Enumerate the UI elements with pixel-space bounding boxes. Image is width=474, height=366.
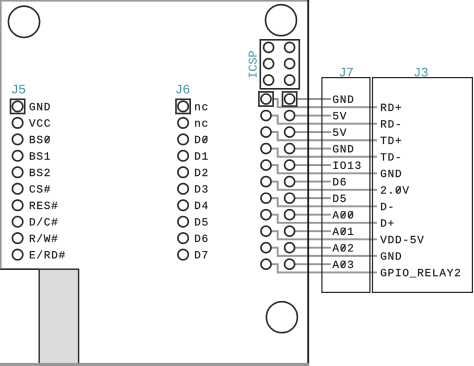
wire: header right pin row 1 to J7 GND	[295, 98, 331, 100]
J6 pin 5 (D2)	[178, 167, 188, 177]
wire: header left pin row 6 to J3 2.0V	[271, 182, 377, 190]
J6 pin 3 (D0)	[178, 134, 188, 144]
header pin row 6 right	[285, 177, 295, 187]
J6 pin 6 (D3)	[178, 184, 188, 194]
wire: header right pin row 8 to J7 A00	[295, 214, 331, 216]
J5 pin 6 label CS#	[30, 185, 36, 192]
J6 pin 8 (D5)	[178, 216, 188, 226]
header pin row 4 right	[285, 144, 295, 154]
J3 pin label D-	[381, 203, 386, 210]
board outline: left edge	[0, 0, 2, 268]
wire: header left pin row 3 to J3 TD+	[271, 132, 377, 140]
J5 pin 10 label E/RD#	[30, 251, 35, 258]
J7 pin label D5	[333, 195, 338, 202]
J5 pin 1 label GND	[30, 103, 35, 110]
ICSP pin 1	[264, 42, 274, 52]
wire: header right pin row 2 to J7 5V	[295, 115, 331, 117]
J6 pin 3 label D0	[195, 136, 200, 143]
header pin row 9 right	[285, 226, 295, 236]
wire: header left pin row 4 to J3 TD-	[271, 149, 377, 157]
J5 pin 8 label D/C#	[30, 218, 35, 225]
wire: header left pin row 5 to J3 GND	[271, 165, 377, 173]
header pin row 11 left	[261, 259, 271, 269]
header pin row 3 right	[285, 127, 295, 137]
J3 pin label D+	[381, 219, 386, 226]
J5 pin 4 (BS1)	[12, 151, 22, 161]
ICSP pin 6	[285, 75, 295, 85]
J5 pin 10 (E/RD#)	[12, 249, 22, 259]
header pin row 8 left	[261, 210, 271, 220]
header pin row 11 right	[285, 259, 295, 269]
J7 pin label A03	[332, 261, 339, 268]
dual-row header pins	[259, 92, 297, 269]
header pin row 1 left	[261, 94, 271, 104]
header J6	[176, 85, 208, 260]
mounting hole (top-right)	[266, 5, 297, 36]
header pin row 10 left	[261, 243, 271, 253]
connector J3 box	[373, 78, 473, 293]
J5 pin 9 (R/W#)	[12, 233, 22, 243]
wire: header right pin row 5 to J7 IO13	[295, 164, 331, 166]
header J5	[11, 85, 65, 260]
J6 pin 1 (nc)	[178, 101, 188, 111]
J5 pin 1 (GND)	[12, 101, 22, 111]
J5 pin 2 label VCC	[29, 119, 35, 126]
wire: header left pin row 2 to J3 RD-	[271, 116, 377, 124]
header pin row 10 right	[285, 243, 295, 253]
mounting hole (bottom)	[266, 302, 297, 333]
J5 pin 5 label BS2	[30, 169, 35, 176]
J5 pin 8 (D/C#)	[12, 216, 22, 226]
wire: header right pin row 10 to J7 A02	[295, 247, 331, 249]
connector J7 box	[322, 78, 370, 293]
ICSP pin 3	[264, 59, 274, 69]
ICSP pin 2	[285, 42, 295, 52]
connector tab (bottom-left edge connector)	[39, 269, 78, 364]
connector ICSP	[249, 40, 300, 89]
J6 pin 4 (D1)	[178, 151, 188, 161]
J6 pin 1 label nc	[195, 104, 200, 110]
J7 pin label GND	[333, 145, 338, 152]
header pin row 3 left	[261, 127, 271, 137]
J6 pin 2 (nc)	[178, 118, 188, 128]
label J5	[12, 85, 17, 94]
J6 pin 2 label nc	[195, 121, 200, 127]
wire: header left pin row 9 to J3 VDD-5V	[271, 231, 377, 239]
J7 pin label 5V	[333, 129, 338, 136]
header pin row 5 right	[285, 160, 295, 170]
J7 pin label A02	[332, 244, 339, 251]
header pin row 8 right	[285, 210, 295, 220]
J3 pin label RD+	[381, 104, 386, 111]
label J3	[414, 68, 419, 77]
wire: header left pin row 10 to J3 GND	[271, 248, 377, 256]
wire: header right pin row 9 to J7 A01	[295, 230, 331, 232]
J7 pin label 5V	[333, 112, 338, 119]
J3 pin label 2.0V	[381, 186, 386, 193]
J7 pin label D6	[333, 178, 338, 185]
J5 pin 3 (BS0)	[12, 134, 22, 144]
J6 pin 7 label D4	[195, 202, 200, 209]
label ICSP (vertical)	[249, 51, 257, 77]
header pin row 1 right	[285, 94, 295, 104]
board outline: bottom-left notch edge	[0, 268, 39, 270]
wire: header right pin row 7 to J7 D5	[295, 197, 331, 199]
J6 pin 1 square pad	[176, 99, 190, 113]
label J6	[176, 85, 181, 94]
wire: header left pin row 8 to J3 D+	[271, 215, 377, 223]
J7 pin label A01	[332, 228, 339, 235]
J5 pin 7 label RES#	[30, 202, 35, 209]
J5 pin 3 label BS0	[30, 136, 35, 143]
ICSP box	[260, 40, 299, 89]
header square pad row 1 right	[283, 92, 297, 106]
board outline: bottom edge	[0, 363, 309, 366]
board outline: right edge	[307, 0, 309, 366]
J6 pin 5 label D2	[195, 169, 200, 176]
wire: header right pin row 11 to J7 A03	[295, 263, 331, 265]
J5 pin 5 (BS2)	[12, 167, 22, 177]
J3 pin label VDD-5V	[380, 236, 386, 243]
header pin row 7 right	[285, 193, 295, 203]
J3 pin label GND	[381, 252, 386, 259]
J6 pin 6 label D3	[195, 185, 200, 192]
J3 pin label TD-	[381, 153, 387, 160]
J6 pin 10 label D7	[195, 251, 200, 258]
header pin row 2 left	[261, 111, 271, 121]
J6 pin 4 label D1	[195, 152, 200, 159]
J3 pin label GND	[381, 170, 386, 177]
ICSP pin 5	[264, 75, 274, 85]
header pin row 7 left	[261, 193, 271, 203]
wire: header right pin row 3 to J7 5V	[295, 131, 331, 133]
wire: header left pin row 11 to J3 GPIO_RELAY2	[271, 264, 377, 272]
header pin row 5 left	[261, 160, 271, 170]
J7 pin label IO13	[333, 162, 337, 169]
J5 pin 1 square pad	[11, 99, 25, 113]
board outline: top edge	[0, 0, 309, 2]
J6 pin 7 (D4)	[178, 200, 188, 210]
wire: header left pin row 1 to J3 RD+	[271, 99, 377, 107]
J7 pin label A00	[332, 211, 339, 218]
wire: header right pin row 6 to J7 D6	[295, 181, 331, 183]
header pin row 4 left	[261, 144, 271, 154]
J5 pin 9 label R/W#	[30, 235, 35, 242]
J5 pin 7 (RES#)	[12, 200, 22, 210]
header pin row 6 left	[261, 177, 271, 187]
J5 pin 2 (VCC)	[12, 118, 22, 128]
J5 pin 4 label BS1	[30, 152, 35, 159]
header square pad row 1 left	[259, 92, 273, 106]
J6 pin 8 label D5	[195, 218, 200, 225]
wire: header right pin row 4 to J7 GND	[295, 148, 331, 150]
J3 pin label TD+	[381, 137, 387, 144]
label J7	[340, 68, 345, 77]
wire: header left pin row 7 to J3 D-	[271, 198, 377, 206]
ICSP pin 4	[285, 59, 295, 69]
J7 pin label GND	[333, 95, 338, 102]
header pin row 2 right	[285, 111, 295, 121]
J5 pin 6 (CS#)	[12, 184, 22, 194]
J6 pin 10 (D7)	[178, 249, 188, 259]
J3 pin label RD-	[381, 120, 386, 127]
header pin row 9 left	[261, 226, 271, 236]
J6 pin 9 (D6)	[178, 233, 188, 243]
mounting hole (top-left)	[8, 6, 39, 37]
J3 pin label GPIO_RELAY2	[381, 269, 386, 276]
J6 pin 9 label D6	[195, 235, 200, 242]
